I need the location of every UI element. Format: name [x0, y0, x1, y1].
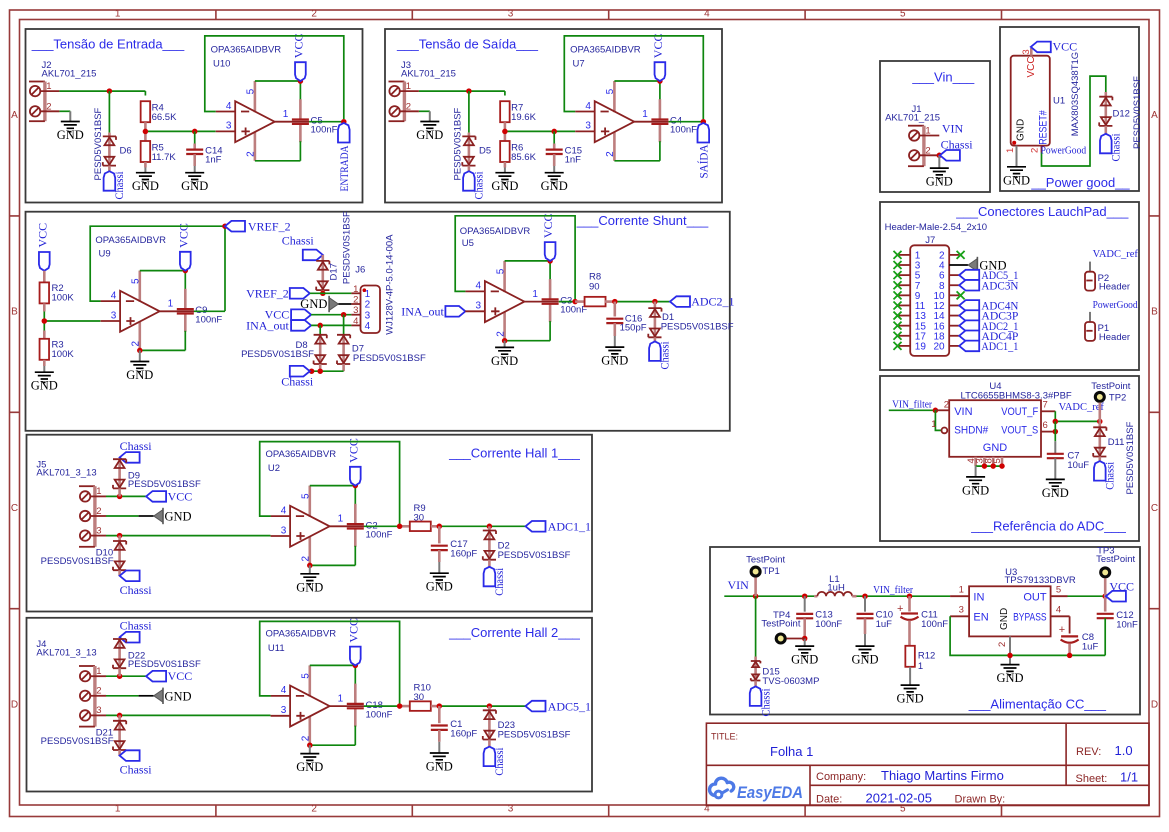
- svg-text:VCC: VCC: [1109, 580, 1134, 594]
- svg-text:100nF: 100nF: [560, 305, 587, 316]
- net port ADC3P at J7 pin14: [959, 309, 1019, 323]
- wire D12 to chassis: [1105, 126, 1108, 134]
- title block TITLE: [711, 732, 813, 760]
- svg-text:3: 3: [353, 305, 358, 316]
- EasyEDA logo: [710, 778, 803, 802]
- capacitor C17: [431, 526, 478, 573]
- resistor R5: [141, 141, 177, 163]
- wire J1 pin1 net VIN: [919, 122, 963, 136]
- no-connect mark J7 pin10: [957, 291, 965, 299]
- svg-text:A: A: [11, 110, 18, 121]
- svg-text:OUT: OUT: [1023, 591, 1047, 603]
- wire to U4 pin1 SHDN: [931, 410, 947, 433]
- svg-text:GND: GND: [165, 510, 192, 524]
- svg-text:Chassi: Chassi: [492, 747, 506, 776]
- svg-text:100K: 100K: [52, 293, 75, 304]
- svg-text:AKL701_3_13: AKL701_3_13: [36, 468, 96, 479]
- IC U3 labels: [1005, 567, 1076, 586]
- wire J2 pin2 to ground: [40, 111, 70, 121]
- diode D22 labels: [128, 651, 201, 671]
- wire R8 to ADC2_1: [612, 299, 670, 305]
- diode D6 labels: [93, 107, 132, 180]
- svg-text:Thiago Martins Firmo: Thiago Martins Firmo: [881, 768, 1004, 783]
- diode D23: [483, 710, 496, 739]
- svg-text:OPA365AIDBVR: OPA365AIDBVR: [95, 235, 166, 246]
- capacitor C8 polarized: [1059, 624, 1099, 658]
- chassis flag below D5: [463, 171, 486, 200]
- wire J4 pin1 to VCC: [90, 668, 146, 679]
- capacitor C4 labels: [670, 115, 697, 135]
- inductor L1: [814, 574, 856, 596]
- svg-text:___Corrente Hall 1___: ___Corrente Hall 1___: [448, 445, 581, 460]
- diode D2 labels: [498, 540, 571, 561]
- svg-text:10nF: 10nF: [1116, 620, 1138, 631]
- header P2: [1085, 262, 1130, 293]
- svg-text:1: 1: [959, 584, 964, 595]
- wire VIN to D15: [755, 596, 757, 661]
- ground GND below R5: [132, 173, 159, 194]
- frame row labels left: [11, 110, 18, 711]
- ground GND below C1: [426, 753, 453, 774]
- svg-text:OPA365AIDBVR: OPA365AIDBVR: [266, 629, 337, 640]
- diode D1 labels: [661, 312, 734, 332]
- svg-text:___Corrente Shunt___: ___Corrente Shunt___: [576, 213, 709, 228]
- diode D8 labels: [241, 340, 314, 360]
- resistor R9: [410, 503, 440, 531]
- svg-text:150pF: 150pF: [620, 323, 647, 334]
- ground pennant GND at J4 pin2: [154, 688, 192, 704]
- wire R6 to ground: [504, 162, 507, 173]
- svg-text:___Vin___: ___Vin___: [911, 69, 975, 84]
- svg-text:100nF: 100nF: [366, 530, 393, 541]
- diode D10 labels: [41, 548, 114, 567]
- svg-text:1: 1: [365, 289, 371, 300]
- header P1: [1085, 312, 1130, 343]
- diode D8: [314, 335, 327, 364]
- diode D12: [1099, 97, 1112, 126]
- chassis flag above D22: [120, 619, 153, 643]
- svg-text:Chassi: Chassi: [492, 567, 506, 596]
- wire J4 pin3 to op-amp U11: [90, 713, 270, 721]
- net port ADC5_1 at J7 pin6: [959, 268, 1018, 282]
- resistor R4: [141, 101, 177, 123]
- ground GND below C16: [601, 347, 628, 368]
- svg-text:ADC3N: ADC3N: [981, 278, 1018, 292]
- wire output U2 to R9: [364, 524, 410, 530]
- svg-text:1.0: 1.0: [1115, 743, 1133, 758]
- capacitor C5 labels: [311, 115, 338, 135]
- wire divider node to op-amp input: [143, 122, 216, 141]
- capacitor C3 labels: [560, 295, 587, 315]
- capacitor C14: [186, 131, 222, 172]
- diode D6: [103, 136, 116, 165]
- svg-text:INA_out: INA_out: [246, 318, 289, 332]
- svg-text:U5: U5: [462, 238, 474, 249]
- net port ADC2_1 at J7 pin16: [959, 319, 1018, 333]
- ground GND at U11 pin2: [296, 754, 323, 775]
- svg-text:D5: D5: [479, 146, 491, 157]
- ground GND below C7: [1042, 479, 1069, 500]
- connector J6 body: [353, 284, 380, 333]
- ground GND below U3: [996, 665, 1023, 686]
- wire J3 pin2 to ground: [400, 111, 430, 121]
- wire feedback loop U2: [260, 442, 400, 527]
- wire D23 to chassis: [488, 740, 491, 747]
- diode D7 labels: [352, 344, 426, 364]
- op-amp U11 label: [266, 629, 337, 654]
- wire into D12: [1105, 92, 1108, 97]
- svg-text:6: 6: [1043, 420, 1048, 431]
- svg-text:100K: 100K: [52, 349, 75, 360]
- block border Vin: [880, 61, 990, 192]
- capacitor C11 polarized: [897, 596, 948, 646]
- svg-text:100nF: 100nF: [366, 710, 393, 721]
- svg-text:TestPoint: TestPoint: [746, 555, 785, 566]
- wire VCC to J6 pin3: [311, 312, 360, 318]
- diode D9: [113, 459, 126, 488]
- svg-text:19.6K: 19.6K: [511, 112, 536, 123]
- svg-text:VREF_2: VREF_2: [248, 219, 291, 233]
- wire diode D6 to chassis: [108, 166, 111, 172]
- svg-text:VCC: VCC: [168, 669, 193, 683]
- svg-text:1nF: 1nF: [565, 155, 582, 166]
- svg-text:D6: D6: [120, 146, 132, 157]
- svg-text:IN: IN: [973, 591, 984, 603]
- ground GND at U2 pin2: [296, 574, 323, 595]
- op-amp U7: [575, 34, 668, 161]
- chassis flag above D17: [282, 234, 323, 261]
- svg-text:AKL701_3_13: AKL701_3_13: [36, 648, 96, 659]
- frame column ticks bottom: [216, 805, 1002, 817]
- wire J5 pin3 to op-amp U2: [90, 533, 270, 541]
- svg-text:VIN: VIN: [954, 406, 972, 418]
- diode D7: [337, 335, 350, 364]
- svg-text:100nF: 100nF: [195, 314, 222, 325]
- wires J7 left pins: [899, 255, 910, 346]
- title block outline: [706, 723, 1149, 805]
- capacitor C15: [546, 131, 582, 172]
- net label INA_out at U5 input: [401, 305, 465, 319]
- svg-text:REV:: REV:: [1076, 746, 1101, 758]
- wire D10 to chassis: [118, 570, 121, 576]
- svg-text:Chassi: Chassi: [658, 341, 672, 370]
- ground GND below J1: [926, 168, 953, 189]
- capacitor C9 labels: [195, 305, 222, 325]
- wire R2 R3 node to op-amp U9: [42, 303, 101, 339]
- ground GND below R3: [31, 372, 58, 393]
- ground GND at J3 pin2: [416, 122, 443, 143]
- svg-text:SHDN#: SHDN#: [954, 425, 989, 437]
- svg-text:100nF: 100nF: [921, 619, 948, 630]
- svg-text:___Conectores LauchPad___: ___Conectores LauchPad___: [955, 204, 1129, 219]
- svg-text:Chassi: Chassi: [112, 171, 126, 200]
- capacitor C1: [431, 706, 478, 753]
- svg-text:BYPASS: BYPASS: [1013, 611, 1047, 623]
- svg-text:C: C: [1151, 503, 1158, 514]
- connector J1 label: [885, 104, 940, 123]
- title block Company: [816, 768, 1004, 783]
- wire junction to diode D6: [108, 91, 110, 137]
- wire VREF_2 to J6 pin1: [310, 292, 361, 294]
- wire feedback loop U10: [205, 36, 344, 119]
- ground GND at J2 pin2: [57, 122, 84, 143]
- wire U3 pin4 BYPASS to C8: [1051, 605, 1070, 634]
- svg-text:VCC: VCC: [1053, 40, 1078, 54]
- wire INA_out to J6 pin4: [311, 323, 360, 329]
- diode D23 labels: [498, 720, 571, 741]
- svg-text:1: 1: [115, 9, 121, 20]
- svg-text:Date:: Date:: [816, 794, 842, 806]
- diode D1: [648, 308, 661, 337]
- diode D21 labels: [41, 727, 114, 746]
- capacitor C16: [606, 302, 646, 348]
- svg-text:100nF: 100nF: [311, 125, 338, 136]
- chassis flag below D8: [281, 366, 314, 389]
- power flag VCC at J5 pin1: [146, 489, 192, 503]
- connector J5 label: [36, 459, 96, 478]
- svg-text:AKL701_215: AKL701_215: [885, 112, 940, 123]
- wire R12 to ground: [909, 667, 911, 685]
- frame column labels top: [115, 9, 906, 20]
- ground pennant GND at J6 pin2: [300, 296, 338, 312]
- svg-text:TITLE:: TITLE:: [711, 732, 738, 742]
- wire J4 pin2 to ground pennant: [90, 695, 153, 697]
- chassis flag above D9: [120, 439, 153, 463]
- power flag VCC at J4 pin1: [146, 669, 192, 683]
- svg-text:PESD5V0S1BSF: PESD5V0S1BSF: [1132, 76, 1143, 149]
- svg-text:2021-02-05: 2021-02-05: [866, 791, 933, 806]
- svg-text:1nF: 1nF: [205, 155, 222, 166]
- svg-text:Chassi: Chassi: [281, 375, 314, 389]
- IC U1 labels: [1053, 52, 1081, 137]
- wire D7 D8 to chassis: [309, 364, 344, 374]
- diode D2: [483, 531, 496, 560]
- svg-text:GND: GND: [999, 608, 1010, 630]
- diode D10: [113, 541, 126, 570]
- op-amp U9: [101, 223, 194, 350]
- wire D11 to chassis: [1099, 457, 1102, 462]
- svg-text:2: 2: [944, 400, 949, 411]
- svg-text:Chassi: Chassi: [941, 137, 974, 151]
- svg-text:100nF: 100nF: [815, 619, 842, 630]
- svg-text:1uH: 1uH: [827, 582, 845, 593]
- wire output node U7: [669, 119, 706, 125]
- svg-text:90: 90: [589, 282, 600, 293]
- svg-text:VIN: VIN: [728, 578, 750, 592]
- port flag SAÍDA: [696, 123, 710, 179]
- wire J7 pin4 to ground pennant: [949, 264, 968, 266]
- svg-text:PESD5V0S1BSF: PESD5V0S1BSF: [93, 107, 104, 180]
- svg-text:4: 4: [704, 9, 710, 20]
- wire rail to U3 pin1 IN: [950, 584, 969, 596]
- svg-text:C: C: [11, 503, 18, 514]
- wires U4 bottom pins to ground: [966, 457, 1005, 477]
- IC U4 labels: [961, 381, 1072, 402]
- svg-text:1: 1: [918, 661, 923, 672]
- wire R5 to ground: [144, 162, 147, 173]
- svg-text:1: 1: [1005, 148, 1016, 153]
- wire J6 pin3 branch down to D7: [343, 315, 345, 335]
- frame column labels bottom: [115, 804, 906, 815]
- svg-text:2: 2: [997, 642, 1008, 647]
- resistor R8: [575, 272, 615, 307]
- capacitor C2 labels: [366, 520, 393, 540]
- svg-text:5: 5: [1056, 584, 1061, 595]
- svg-text:11.7K: 11.7K: [152, 152, 177, 163]
- wire J5 pin1 to VCC: [90, 488, 146, 499]
- wire feedback loop U11: [260, 621, 400, 706]
- test point TP3: [1096, 546, 1135, 597]
- connector J5 body: [79, 486, 102, 547]
- power flag VCC at U3 output: [1106, 580, 1134, 602]
- svg-text:Chassi: Chassi: [759, 688, 773, 717]
- wire VIN_filter to U4 pin2: [889, 400, 949, 413]
- wire D21 to chassis: [118, 750, 121, 756]
- svg-text:160pF: 160pF: [450, 549, 477, 560]
- svg-text:PESD5V0S1BSF: PESD5V0S1BSF: [661, 321, 734, 332]
- ground GND below C17: [426, 573, 453, 594]
- svg-text:PESD5V0S1BSF: PESD5V0S1BSF: [498, 550, 571, 561]
- svg-text:Sheet:: Sheet:: [1076, 773, 1108, 785]
- ground GND below C15: [541, 173, 568, 194]
- block border ___Tensão de Entrada___: [26, 29, 363, 203]
- svg-text:3: 3: [508, 804, 514, 815]
- svg-text:J6: J6: [355, 264, 365, 275]
- svg-text:ADC5_1: ADC5_1: [548, 699, 591, 713]
- svg-text:B: B: [1151, 306, 1158, 317]
- svg-text:J7: J7: [925, 235, 935, 246]
- svg-text:INA_out: INA_out: [401, 305, 444, 319]
- no-connect mark J7 pin2: [957, 251, 965, 259]
- svg-text:1/1: 1/1: [1120, 769, 1138, 784]
- svg-text:AKL701_215: AKL701_215: [401, 68, 456, 79]
- svg-text:PESD5V0S1BSF: PESD5V0S1BSF: [342, 211, 353, 284]
- svg-text:SAÍDA: SAÍDA: [696, 144, 710, 178]
- svg-text:RESET#: RESET#: [1037, 110, 1049, 145]
- svg-text:Chassi: Chassi: [1103, 461, 1117, 490]
- chassis flag at J1 pin2: [940, 137, 973, 160]
- IC U3 body TPS79133: [969, 586, 1051, 636]
- chassis flag below D6: [104, 171, 127, 200]
- wire J5 pin2 to ground pennant: [90, 515, 153, 517]
- op-amp U10 label: [211, 44, 282, 69]
- diode D21: [113, 721, 126, 750]
- svg-text:A: A: [1151, 110, 1158, 121]
- svg-text:30: 30: [414, 692, 425, 703]
- wire junction to diode D5: [468, 91, 470, 137]
- svg-text:100nF: 100nF: [670, 125, 697, 136]
- svg-text:EasyEDA: EasyEDA: [737, 784, 803, 802]
- svg-text:10uF: 10uF: [1067, 460, 1089, 471]
- resistor R6: [500, 141, 536, 163]
- net label INA_out at J6 pin4: [246, 318, 311, 332]
- svg-text:5: 5: [900, 9, 906, 20]
- svg-text:PESD5V0S1BSF: PESD5V0S1BSF: [241, 349, 314, 360]
- svg-text:Header: Header: [1099, 282, 1130, 293]
- net label VCC at J6 pin3: [265, 308, 311, 322]
- svg-text:1: 1: [931, 419, 936, 430]
- svg-text:VREF_2: VREF_2: [246, 286, 289, 300]
- svg-text:___Tensão de Saída___: ___Tensão de Saída___: [396, 37, 539, 52]
- svg-text:Chassi: Chassi: [120, 619, 153, 633]
- svg-text:PowerGood: PowerGood: [1093, 300, 1139, 311]
- svg-text:R12: R12: [918, 650, 935, 661]
- frame row ticks left: [10, 216, 20, 609]
- wire ADC node to D2: [488, 526, 491, 530]
- resistor R2: [40, 282, 75, 303]
- svg-text:VIN: VIN: [942, 122, 964, 136]
- diode D17 labels: [329, 211, 353, 284]
- op-amp U2: [271, 438, 364, 565]
- svg-text:+: +: [897, 603, 903, 615]
- diode D5: [462, 136, 475, 165]
- svg-text:__Power good__: __Power good__: [1030, 175, 1130, 190]
- svg-text:4: 4: [1056, 605, 1061, 616]
- svg-text:PESD5V0S1BSF: PESD5V0S1BSF: [41, 736, 114, 747]
- ground GND below C10: [851, 646, 878, 667]
- svg-text:66.5K: 66.5K: [152, 112, 177, 123]
- ground GND below C14: [181, 173, 208, 194]
- svg-text:TP2: TP2: [1109, 392, 1126, 403]
- svg-text:1uF: 1uF: [1082, 642, 1099, 653]
- connector J2 body: [29, 81, 52, 121]
- wire feedback loop U9 to VREF_2: [90, 226, 225, 311]
- svg-text:TestPoint: TestPoint: [1096, 554, 1135, 565]
- title block REV: [1076, 743, 1133, 758]
- svg-text:2: 2: [311, 9, 317, 20]
- wire VADC_ref node to D11: [1099, 421, 1102, 427]
- svg-text:2: 2: [311, 804, 317, 815]
- capacitor C12: [1097, 596, 1138, 655]
- svg-text:D11: D11: [1108, 437, 1125, 448]
- block border Corrente Shunt: [26, 212, 730, 431]
- svg-text:___Alimentação CC___: ___Alimentação CC___: [968, 697, 1107, 712]
- svg-text:VADC_ref: VADC_ref: [1093, 249, 1139, 260]
- svg-text:___Referência do ADC___: ___Referência do ADC___: [970, 519, 1126, 534]
- op-amp U2 label: [266, 449, 337, 474]
- ground pennant GND at J5 pin2: [154, 508, 192, 524]
- svg-text:1: 1: [115, 804, 121, 815]
- net port ADC2_1: [670, 295, 735, 309]
- svg-text:2: 2: [1030, 148, 1041, 153]
- wire ADC node to D23: [488, 706, 491, 710]
- net port VREF_2 output: [225, 219, 291, 233]
- connector J1 body: [908, 126, 931, 167]
- svg-text:3: 3: [1021, 49, 1032, 54]
- chassis flag below D11: [1094, 461, 1117, 490]
- wire U1 pin3 to VCC: [1021, 48, 1032, 56]
- svg-text:D: D: [1151, 699, 1158, 710]
- svg-text:3: 3: [508, 9, 514, 20]
- svg-text:Chassi: Chassi: [282, 234, 315, 248]
- svg-text:D: D: [11, 699, 18, 710]
- connector J4 body: [79, 666, 102, 727]
- resistor R7: [500, 101, 536, 123]
- svg-text:EN: EN: [973, 611, 988, 623]
- ground GND below R6: [491, 173, 518, 194]
- frame row ticks right: [1149, 216, 1160, 609]
- svg-text:PESD5V0S1BSF: PESD5V0S1BSF: [498, 730, 571, 741]
- chassis flag below D2: [484, 567, 507, 596]
- svg-text:Header-Male-2.54_2x10: Header-Male-2.54_2x10: [885, 222, 987, 233]
- block border Alimentacao CC: [710, 547, 1140, 715]
- svg-text:B: B: [11, 306, 18, 317]
- op-amp U7 label: [570, 44, 641, 69]
- resistor R12: [905, 646, 935, 672]
- wire D17 to J6 pin1 row: [320, 290, 326, 296]
- svg-text:30: 30: [414, 512, 425, 523]
- diode D11: [1093, 427, 1106, 456]
